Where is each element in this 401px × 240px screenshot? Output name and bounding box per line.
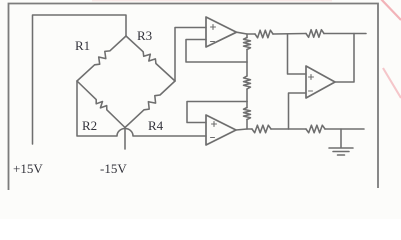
resistor R2 [77, 81, 125, 128]
svg-text:R2: R2 [82, 118, 97, 133]
wire node C to A3 noninverting input [288, 34, 307, 74]
resistor R5 top rail [255, 30, 273, 38]
pink watermark stroke top-right [380, 0, 401, 20]
wire node D to A3 inverting input [289, 93, 307, 129]
svg-text:+15V: +15V [13, 161, 43, 176]
resistor Ra chain below A1 output [246, 34, 248, 38]
resistor R7 [306, 30, 324, 38]
wire A1 output to top rail [237, 32, 256, 34]
wire right bridge node to A1 noninverting input [175, 28, 206, 82]
wire bottom rail right end [325, 128, 364, 130]
wire A3 output feedback to top rail [335, 34, 354, 83]
wire A2 output to bottom rail [236, 129, 252, 130]
resistor Rg gain [246, 62, 248, 76]
wire -15V stub [124, 128, 126, 150]
wire top rail [273, 33, 306, 36]
svg-text:R4: R4 [148, 118, 164, 133]
op-amp A1 [206, 17, 237, 47]
op-amp A2 [206, 115, 236, 145]
wire A1 feedback loop [186, 40, 247, 63]
frame border [9, 4, 379, 191]
resistor R8 [306, 125, 325, 133]
svg-text:-15V: -15V [100, 161, 127, 176]
wire bottom rail [271, 128, 306, 130]
op-amp A3 [306, 66, 335, 98]
pink smudge top edge [92, 0, 332, 2]
resistor R4 [125, 81, 175, 128]
wire A2 feedback loop [187, 102, 247, 123]
pink watermark stroke right [383, 68, 401, 98]
resistor Rb chain above A2 output [246, 102, 248, 108]
svg-text:R3: R3 [137, 28, 152, 43]
wire +15V rail to bridge top [33, 15, 127, 144]
svg-text:R1: R1 [75, 38, 90, 53]
resistor R3 [126, 36, 175, 81]
ground [340, 129, 342, 148]
wire top rail output stub [324, 33, 366, 35]
wire left bridge node to A2 inverting input with crossover hop [77, 81, 206, 136]
resistor R6 bottom rail [252, 125, 271, 133]
resistor R1 [77, 36, 126, 81]
